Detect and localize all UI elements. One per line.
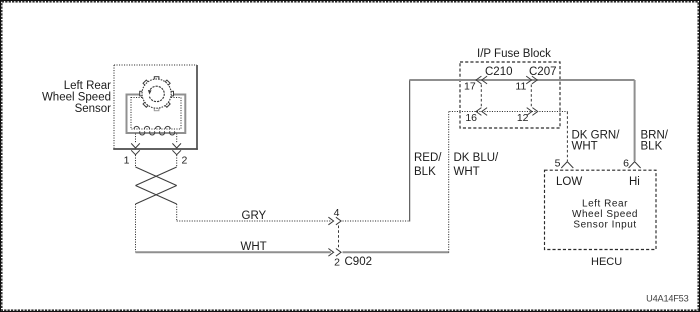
wire: GRY continuation to RED/BLK riser [343, 220, 410, 222]
svg-text:HECU: HECU [591, 256, 622, 268]
connector C902 pin 4 [328, 217, 341, 225]
wire: lower fuse row [449, 111, 567, 113]
wire: right drop to GRY run [176, 204, 178, 221]
svg-text:U4A14F53: U4A14F53 [646, 294, 688, 304]
sensor body (pickup, gray rectangle) [127, 95, 186, 134]
svg-text:I/P Fuse Block: I/P Fuse Block [477, 48, 551, 60]
svg-text:5: 5 [555, 158, 561, 170]
svg-text:Hi: Hi [629, 176, 640, 188]
connector C902 tie line [338, 226, 340, 248]
wire: DK GRN/WHT drop [566, 112, 568, 162]
HECU pin 5 terminal [561, 162, 573, 168]
terminal pin 1 (male/female fork) [131, 143, 140, 154]
svg-text:LOW: LOW [556, 176, 582, 188]
sensor component box (Left Rear Wheel Speed Sensor) [113, 65, 198, 150]
svg-text:Left Rear: Left Rear [64, 80, 111, 92]
svg-text:WHT: WHT [241, 241, 267, 253]
terminal pin 2 (male/female fork) [172, 143, 181, 154]
svg-text:Wheel Speed: Wheel Speed [572, 209, 638, 220]
wire: pin 1 drop [135, 155, 137, 167]
svg-text:DK BLU/: DK BLU/ [454, 152, 500, 164]
twisted pair crossing [136, 167, 177, 204]
svg-text:6: 6 [623, 158, 629, 170]
svg-text:GRY: GRY [242, 210, 267, 222]
HECU pin 6 terminal [629, 162, 641, 168]
HECU input label [572, 199, 638, 231]
svg-text:2: 2 [182, 155, 188, 167]
pickup coil [134, 126, 175, 135]
I/P Fuse Block box [460, 62, 560, 128]
wire: GRY run [177, 220, 331, 222]
connector C210 pin 16 [476, 108, 487, 116]
svg-text:1: 1 [124, 155, 130, 167]
HECU box [545, 170, 657, 249]
tone ring teeth [140, 77, 174, 111]
wire: BRN/BLK drop [634, 80, 636, 161]
svg-text:Sensor: Sensor [75, 103, 112, 115]
svg-text:C207: C207 [529, 66, 557, 78]
fuse block internal link C210 [480, 85, 482, 108]
svg-text:Left Rear: Left Rear [582, 199, 628, 210]
connector C207 pin 12 [527, 108, 538, 116]
wire: WHT run [136, 251, 331, 253]
wire: sensor lead to pin 1 [135, 134, 137, 144]
wire: left drop to WHT run [135, 204, 137, 252]
svg-text:BLK: BLK [641, 141, 663, 153]
tone ring (gear circle) [142, 79, 171, 108]
svg-text:Wheel Speed: Wheel Speed [42, 92, 111, 104]
svg-text:12: 12 [517, 112, 529, 124]
svg-text:11: 11 [515, 81, 526, 93]
connector C210 pin 17 [476, 76, 487, 84]
svg-text:4: 4 [334, 207, 340, 219]
wire: sensor lead to pin 2 [176, 134, 178, 144]
wire: DK BLU/WHT riser [448, 112, 450, 254]
svg-text:WHT: WHT [454, 166, 480, 178]
rotation arrow [148, 86, 164, 101]
svg-text:C902: C902 [345, 256, 373, 268]
svg-text:WHT: WHT [572, 141, 598, 153]
sensor inner dotted rectangle [131, 98, 181, 130]
label: Left Rear Wheel Speed Sensor [42, 80, 111, 115]
wire: WHT continuation to DK BLU/WHT riser [343, 251, 449, 253]
connector C207 pin 11 [526, 76, 537, 84]
fuse block internal link C207 [530, 85, 532, 108]
svg-text:RED/: RED/ [414, 152, 442, 164]
svg-text:2: 2 [334, 257, 340, 269]
svg-text:C210: C210 [485, 66, 513, 78]
svg-text:16: 16 [465, 112, 477, 124]
wire: pin 2 drop [176, 155, 178, 167]
wire: RED/BLK riser [409, 80, 411, 222]
svg-text:Sensor Input: Sensor Input [573, 219, 636, 230]
svg-text:17: 17 [464, 81, 476, 93]
connector C902 pin 2 [328, 249, 341, 257]
svg-text:BLK: BLK [414, 166, 436, 178]
wire: feed run (RED/BLK to BRN/BLK, top) [410, 79, 635, 81]
